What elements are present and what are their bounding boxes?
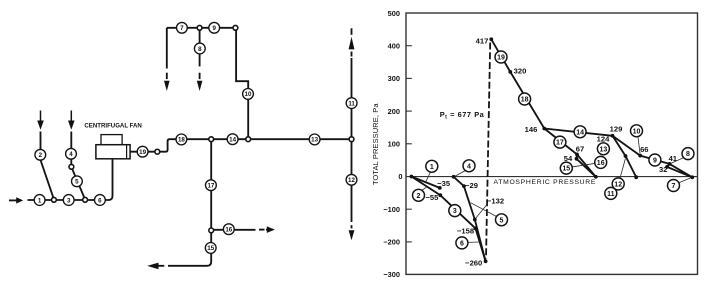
- svg-text:129: 129: [610, 125, 623, 134]
- svg-text:ATMOSPHERIC PRESSURE: ATMOSPHERIC PRESSURE: [494, 179, 597, 186]
- svg-text:−29: −29: [465, 181, 478, 190]
- svg-text:16: 16: [225, 227, 232, 234]
- svg-text:CENTRIFUGAL FAN: CENTRIFUGAL FAN: [84, 123, 141, 130]
- svg-text:124: 124: [597, 134, 610, 143]
- svg-text:−260: −260: [465, 259, 482, 268]
- svg-text:19: 19: [139, 149, 146, 156]
- svg-text:18: 18: [521, 97, 529, 104]
- svg-text:8: 8: [198, 46, 202, 53]
- svg-text:15: 15: [207, 245, 214, 252]
- svg-text:66: 66: [640, 145, 648, 154]
- svg-text:TOTAL PRESSURE, Pa: TOTAL PRESSURE, Pa: [371, 103, 380, 185]
- svg-text:−55: −55: [425, 193, 439, 202]
- svg-text:500: 500: [388, 9, 400, 18]
- svg-text:14: 14: [229, 137, 236, 144]
- svg-text:−158: −158: [457, 227, 474, 236]
- svg-text:3: 3: [67, 197, 71, 204]
- svg-text:11: 11: [348, 100, 355, 107]
- svg-text:67: 67: [576, 145, 584, 154]
- svg-text:2: 2: [417, 193, 421, 200]
- svg-text:6: 6: [98, 197, 102, 204]
- svg-text:5: 5: [75, 179, 79, 186]
- svg-text:400: 400: [388, 41, 400, 50]
- svg-text:4: 4: [467, 163, 471, 170]
- svg-text:0: 0: [398, 172, 402, 181]
- svg-text:6: 6: [460, 241, 464, 248]
- svg-text:41: 41: [669, 154, 678, 163]
- svg-text:10: 10: [245, 91, 252, 98]
- svg-text:100: 100: [388, 140, 400, 149]
- svg-text:−200: −200: [383, 238, 400, 247]
- svg-text:−35: −35: [437, 179, 451, 188]
- svg-text:1: 1: [38, 197, 42, 204]
- svg-text:1: 1: [430, 164, 434, 171]
- svg-text:19: 19: [497, 55, 505, 62]
- svg-text:2: 2: [39, 152, 43, 159]
- svg-text:−100: −100: [383, 205, 400, 214]
- svg-text:15: 15: [562, 166, 570, 173]
- svg-text:13: 13: [311, 137, 318, 144]
- svg-text:8: 8: [686, 151, 690, 158]
- svg-text:12: 12: [348, 177, 355, 184]
- svg-text:320: 320: [514, 67, 527, 76]
- svg-text:54: 54: [564, 154, 573, 163]
- svg-text:18: 18: [178, 137, 185, 144]
- svg-text:9: 9: [212, 25, 216, 32]
- svg-text:200: 200: [388, 107, 400, 116]
- svg-text:146: 146: [525, 125, 538, 134]
- svg-text:9: 9: [653, 158, 657, 165]
- svg-text:417: 417: [476, 36, 489, 45]
- svg-text:7: 7: [180, 25, 184, 32]
- svg-text:5: 5: [500, 217, 504, 224]
- svg-text:17: 17: [556, 140, 564, 147]
- svg-text:14: 14: [576, 129, 584, 136]
- svg-text:11: 11: [607, 191, 615, 198]
- svg-text:3: 3: [453, 208, 457, 215]
- svg-text:−132: −132: [487, 197, 504, 206]
- svg-text:4: 4: [69, 151, 73, 158]
- svg-text:7: 7: [672, 183, 676, 190]
- svg-text:32: 32: [659, 165, 667, 174]
- svg-text:12: 12: [614, 182, 622, 189]
- svg-text:10: 10: [633, 128, 641, 135]
- svg-text:300: 300: [388, 74, 400, 83]
- svg-text:16: 16: [597, 160, 605, 167]
- svg-text:13: 13: [600, 146, 608, 153]
- svg-text:−300: −300: [383, 270, 400, 279]
- svg-text:17: 17: [207, 183, 214, 190]
